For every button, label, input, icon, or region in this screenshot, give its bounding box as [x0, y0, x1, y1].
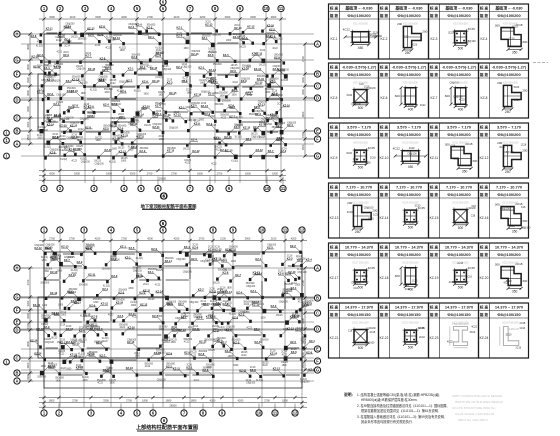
svg-text:500: 500	[358, 106, 364, 110]
svg-text:350x500: 350x500	[140, 64, 150, 66]
svg-text:KL3(2): KL3(2)	[36, 45, 43, 47]
svg-text:1800: 1800	[41, 260, 47, 262]
svg-text:标 高: 标 高	[329, 305, 339, 310]
svg-text:箍 筋: 箍 筋	[329, 312, 339, 317]
svg-text:1C16: 1C16	[412, 280, 418, 283]
svg-text:C8@100: C8@100	[77, 69, 87, 71]
svg-text:KZ-7: KZ-7	[152, 314, 158, 318]
plan 1 top axis bubbles	[41, 0, 284, 12]
svg-text:2700: 2700	[264, 398, 270, 402]
svg-text:1800: 1800	[82, 380, 88, 382]
svg-text:2C16: 2C16	[287, 256, 293, 258]
svg-text:600: 600	[395, 94, 400, 98]
svg-text:2C14: 2C14	[182, 64, 188, 66]
svg-text:350x500: 350x500	[282, 289, 292, 291]
svg-text:KZ-16: KZ-16	[224, 135, 232, 139]
column schedule cell block 3 group 3	[429, 123, 479, 178]
svg-text:KZ-8: KZ-8	[208, 92, 214, 96]
svg-text:KL3(2): KL3(2)	[229, 313, 236, 315]
svg-text:KZ-15: KZ-15	[243, 126, 251, 130]
svg-text:2C16: 2C16	[86, 53, 92, 55]
svg-text:1800: 1800	[228, 356, 234, 358]
svg-text:KZ-7: KZ-7	[126, 78, 132, 82]
svg-text:1800: 1800	[265, 92, 271, 94]
svg-text:KZ14 500x500: KZ14 500x500	[402, 202, 419, 205]
plan 1 right axis bubbles	[304, 41, 321, 159]
svg-text:C: C	[316, 83, 319, 88]
svg-text:4200: 4200	[174, 236, 180, 240]
svg-text:4C25: 4C25	[468, 27, 476, 31]
svg-text:16C25: 16C25	[213, 283, 220, 285]
svg-text:KZ-1: KZ-1	[179, 105, 185, 109]
svg-text:箍 筋: 箍 筋	[429, 13, 439, 18]
svg-text:3300: 3300	[95, 15, 101, 19]
svg-text:250: 250	[505, 170, 511, 174]
svg-text:1800: 1800	[226, 40, 232, 42]
svg-text:KZ-22: KZ-22	[380, 336, 389, 340]
svg-text:C: C	[16, 115, 19, 120]
svg-text:KZ-11: KZ-11	[173, 367, 181, 371]
svg-text:1C16: 1C16	[403, 284, 409, 287]
svg-text:C8@200: C8@200	[287, 122, 297, 124]
svg-text:C8@200: C8@200	[72, 341, 82, 343]
svg-text:1800: 1800	[58, 304, 64, 306]
svg-text:C8@200: C8@200	[255, 111, 265, 113]
svg-text:2C18: 2C18	[408, 104, 414, 107]
svg-text:1800: 1800	[144, 93, 150, 95]
svg-text:H: H	[16, 265, 19, 270]
svg-text:1800: 1800	[96, 140, 102, 142]
svg-text:Φ8@100/150: Φ8@100/150	[497, 312, 520, 317]
svg-text:500: 500	[358, 285, 364, 289]
svg-text:KZ-10: KZ-10	[277, 136, 285, 140]
plan 1 bottom dimension lines	[39, 169, 286, 182]
svg-text:E: E	[316, 346, 319, 351]
svg-text:C8@100: C8@100	[133, 271, 143, 273]
svg-text:4200: 4200	[200, 15, 206, 19]
svg-text:-0.030~3.570(-1.27): -0.030~3.570(-1.27)	[342, 65, 377, 70]
svg-text:KZ-1: KZ-1	[309, 339, 315, 343]
svg-text:KZ-1: KZ-1	[254, 327, 260, 331]
svg-text:4C22: 4C22	[447, 341, 453, 344]
svg-text:200: 200	[397, 22, 402, 26]
svg-text:C8@200: C8@200	[47, 121, 57, 123]
svg-text:KZ-5: KZ-5	[129, 246, 135, 250]
plan 1 main beam lines	[44, 34, 281, 156]
svg-text:箍 筋: 箍 筋	[379, 13, 389, 18]
svg-text:KZ-16: KZ-16	[69, 273, 77, 277]
svg-text:基础顶 ~ -0.030: 基础顶 ~ -0.030	[394, 6, 422, 11]
svg-text:KZ-13: KZ-13	[87, 26, 95, 30]
svg-text:16C25: 16C25	[144, 125, 151, 127]
svg-text:3300: 3300	[49, 15, 55, 19]
svg-text:KZ-9: KZ-9	[285, 272, 291, 276]
svg-text:Φ8@100/200: Φ8@100/200	[347, 72, 370, 77]
svg-text:2C16: 2C16	[208, 247, 214, 249]
svg-text:16C25: 16C25	[51, 338, 58, 340]
svg-text:G: G	[15, 57, 18, 62]
svg-text:箍 筋: 箍 筋	[379, 252, 389, 257]
svg-text:KZ-13: KZ-13	[179, 328, 187, 332]
svg-text:4C25: 4C25	[368, 266, 376, 270]
svg-text:1800: 1800	[166, 398, 172, 402]
svg-text:KZ-11: KZ-11	[46, 27, 54, 31]
svg-text:箍 筋: 箍 筋	[329, 13, 339, 18]
svg-text:Φ8@100/200: Φ8@100/200	[497, 13, 520, 18]
svg-text:KZ-8: KZ-8	[72, 104, 78, 108]
svg-text:400: 400	[458, 108, 464, 112]
svg-text:3C20: 3C20	[346, 152, 352, 155]
svg-text:KZ-5: KZ-5	[234, 340, 240, 344]
svg-text:KL3(2): KL3(2)	[231, 160, 238, 162]
svg-text:E: E	[16, 83, 19, 88]
svg-text:KZ-10: KZ-10	[33, 303, 41, 307]
svg-text:4C22: 4C22	[244, 304, 250, 306]
svg-text:A: A	[16, 378, 19, 383]
column schedule cell block 4 group 2	[379, 183, 429, 238]
svg-text:3C20: 3C20	[411, 44, 417, 47]
svg-text:1800: 1800	[245, 171, 251, 175]
svg-text:3. 柱插筋锚入基础做法详见《11G101—3》第59页及有: 3. 柱插筋锚入基础做法详见《11G101—3》第59页及有关说明,	[357, 414, 445, 419]
svg-text:2700: 2700	[72, 398, 78, 402]
svg-text:350x500: 350x500	[148, 269, 158, 271]
svg-text:1800: 1800	[233, 365, 239, 367]
svg-text:KZ-16: KZ-16	[267, 23, 275, 27]
column schedule cell block 6 group 1	[329, 303, 379, 358]
svg-text:2700: 2700	[147, 171, 153, 175]
svg-text:1800: 1800	[227, 287, 233, 289]
svg-text:KZ-9: KZ-9	[166, 351, 172, 355]
svg-text:4C22: 4C22	[56, 40, 62, 42]
svg-text:7.170 ~ 10.770: 7.170 ~ 10.770	[446, 185, 472, 190]
svg-text:350x500: 350x500	[147, 24, 157, 26]
svg-text:1C16: 1C16	[512, 26, 518, 29]
svg-text:KZ-9: KZ-9	[306, 350, 312, 354]
svg-text:2C14: 2C14	[301, 340, 307, 342]
svg-text:E: E	[316, 128, 319, 133]
svg-text:4C22: 4C22	[259, 304, 265, 306]
svg-text:2100: 2100	[70, 15, 76, 19]
svg-text:C8@200: C8@200	[191, 103, 201, 105]
svg-text:1C16: 1C16	[519, 327, 525, 330]
column schedule cell block 5 group 1	[329, 243, 379, 298]
svg-text:箍 筋: 箍 筋	[429, 312, 439, 317]
svg-text:2C18: 2C18	[370, 156, 376, 159]
svg-text:1800: 1800	[128, 288, 134, 290]
svg-text:350x500: 350x500	[104, 89, 114, 91]
svg-text:4C22: 4C22	[393, 147, 401, 151]
svg-text:KL3(2): KL3(2)	[103, 285, 110, 287]
svg-text:4200: 4200	[49, 171, 55, 175]
svg-text:KZ-16: KZ-16	[194, 93, 202, 97]
svg-text:KZ16 500x500: KZ16 500x500	[502, 202, 519, 205]
svg-text:4C22: 4C22	[194, 380, 200, 382]
svg-text:4200: 4200	[95, 236, 101, 240]
svg-text:C8@100: C8@100	[45, 342, 55, 344]
svg-text:2700: 2700	[49, 236, 55, 240]
svg-text:500: 500	[358, 346, 364, 350]
svg-text:KZ-4: KZ-4	[481, 37, 488, 41]
svg-text:350x500: 350x500	[40, 283, 50, 285]
svg-text:C8@100: C8@100	[189, 302, 199, 304]
svg-text:KZ-1: KZ-1	[148, 35, 154, 39]
svg-text:16C25: 16C25	[241, 352, 248, 354]
svg-text:3C20: 3C20	[469, 331, 475, 334]
svg-text:C8@200: C8@200	[267, 245, 277, 247]
svg-text:KZ-1: KZ-1	[54, 102, 60, 106]
svg-text:16C25: 16C25	[259, 64, 266, 66]
svg-text:4C22: 4C22	[343, 28, 351, 32]
svg-text:箍 筋: 箍 筋	[379, 192, 389, 197]
svg-text:1800: 1800	[60, 139, 66, 141]
svg-text:2C16: 2C16	[153, 113, 159, 115]
svg-text:3600: 3600	[26, 134, 30, 140]
svg-text:KZ-11: KZ-11	[156, 51, 164, 55]
svg-text:350x500: 350x500	[202, 35, 212, 37]
svg-text:KZ-1: KZ-1	[197, 316, 203, 320]
svg-text:4C22: 4C22	[459, 98, 465, 101]
svg-text:标 高: 标 高	[429, 125, 439, 130]
svg-text:C8@200: C8@200	[130, 121, 140, 123]
svg-text:4C22: 4C22	[211, 163, 217, 165]
svg-text:KZ-16: KZ-16	[34, 351, 42, 355]
svg-text:200: 200	[522, 148, 527, 152]
svg-text:KZ9 500x500: KZ9 500x500	[353, 142, 368, 145]
svg-text:300: 300	[472, 159, 477, 163]
plan 2 right dimension strip	[301, 266, 307, 371]
svg-text:KZ-8: KZ-8	[31, 34, 37, 38]
svg-text:标 高: 标 高	[379, 185, 389, 190]
svg-text:C8@100: C8@100	[407, 152, 417, 155]
svg-text:1C16: 1C16	[418, 327, 424, 330]
svg-text:4C22: 4C22	[105, 48, 111, 50]
plan 2 left dimension strip	[26, 266, 32, 382]
svg-text:4200: 4200	[147, 236, 153, 240]
svg-text:C8@200: C8@200	[230, 68, 240, 70]
svg-text:KZ-7: KZ-7	[431, 96, 438, 100]
svg-text:箍 筋: 箍 筋	[479, 252, 489, 257]
svg-text:14.370 ~ 17.970: 14.370 ~ 17.970	[495, 305, 523, 310]
svg-text:KZ-10: KZ-10	[283, 103, 291, 107]
svg-text:Φ8@100/200: Φ8@100/200	[447, 132, 470, 137]
column schedule cell block 6 group 3	[429, 303, 479, 358]
svg-text:KZ-14: KZ-14	[255, 271, 263, 275]
svg-text:C8@100: C8@100	[279, 302, 289, 304]
svg-text:C8@200: C8@200	[70, 122, 80, 124]
svg-text:KZ-5: KZ-5	[290, 315, 296, 319]
svg-text:3C20: 3C20	[506, 333, 512, 336]
svg-text:14.370 ~ 17.970: 14.370 ~ 17.970	[345, 305, 373, 310]
svg-text:KZ-10: KZ-10	[225, 148, 233, 152]
svg-text:KZ-1: KZ-1	[176, 65, 182, 69]
svg-text:2700: 2700	[126, 398, 132, 402]
svg-text:A: A	[16, 141, 19, 146]
svg-text:框架柱箍筋加密区范围详见《11G101—1》第61页说明.: 框架柱箍筋加密区范围详见《11G101—1》第61页说明.	[361, 408, 439, 413]
svg-text:1800: 1800	[104, 92, 110, 94]
svg-text:350x500: 350x500	[97, 380, 107, 382]
svg-text:350x500: 350x500	[198, 351, 208, 353]
svg-text:KZ-1: KZ-1	[331, 37, 338, 41]
svg-text:400: 400	[408, 108, 414, 112]
svg-text:KZ-4: KZ-4	[242, 36, 248, 40]
svg-text:350: 350	[512, 289, 518, 293]
svg-text:2C16: 2C16	[270, 351, 276, 353]
svg-text:2C16: 2C16	[223, 301, 229, 303]
svg-text:C8@100: C8@100	[300, 382, 310, 384]
svg-text:3.570 ~ 7.170: 3.570 ~ 7.170	[347, 125, 371, 130]
svg-text:KZ-11: KZ-11	[239, 368, 247, 372]
svg-text:KZ-12: KZ-12	[192, 149, 200, 153]
svg-text:KZ-20: KZ-20	[480, 276, 489, 280]
svg-text:350x500: 350x500	[78, 39, 88, 41]
svg-text:C8@100: C8@100	[365, 342, 375, 345]
svg-text:KZ-6: KZ-6	[47, 92, 53, 96]
svg-text:12: 12	[293, 410, 298, 415]
svg-text:标 高: 标 高	[329, 185, 339, 190]
svg-text:Φ8@100/200: Φ8@100/200	[497, 132, 520, 137]
svg-text:350x500: 350x500	[219, 93, 229, 95]
svg-text:KZ-15: KZ-15	[430, 216, 439, 220]
svg-text:C8@100: C8@100	[65, 117, 75, 119]
plan 1 bottom axis bubbles	[41, 177, 286, 200]
svg-text:KL3(2): KL3(2)	[41, 257, 48, 259]
svg-text:350x500: 350x500	[72, 76, 82, 78]
plan 2 top dimension line	[39, 236, 307, 242]
svg-text:350x500: 350x500	[165, 258, 175, 260]
svg-text:C8@100: C8@100	[364, 207, 374, 210]
svg-text:4C22: 4C22	[409, 147, 415, 150]
svg-text:4C22: 4C22	[282, 354, 288, 356]
svg-text:C8@100: C8@100	[200, 261, 210, 263]
svg-text:16C25: 16C25	[94, 161, 101, 163]
svg-text:350x500: 350x500	[140, 148, 150, 150]
svg-text:2. 柱纵筋连接构造及柱顶锚固做法详见《11G101—1》国: 2. 柱纵筋连接构造及柱顶锚固做法详见《11G101—1》国标图集,	[357, 403, 448, 408]
svg-text:KZ-6: KZ-6	[210, 315, 216, 319]
svg-text:350x500: 350x500	[85, 244, 95, 246]
svg-text:300: 300	[522, 40, 527, 44]
svg-text:2700: 2700	[217, 171, 223, 175]
svg-text:1800: 1800	[142, 398, 148, 402]
svg-text:C18: C18	[401, 95, 406, 98]
column schedule cell block 1 group 1	[329, 4, 383, 59]
svg-text:B: B	[16, 128, 19, 133]
svg-text:4C22: 4C22	[403, 35, 409, 38]
svg-text:KZ-3: KZ-3	[97, 327, 103, 331]
svg-text:KZ-13: KZ-13	[50, 270, 58, 274]
svg-text:KZ-16: KZ-16	[278, 68, 286, 72]
svg-text:1800: 1800	[121, 161, 127, 163]
svg-text:标 高: 标 高	[479, 305, 489, 310]
svg-text:C8@100: C8@100	[182, 67, 192, 69]
svg-text:C8@200: C8@200	[167, 301, 177, 303]
svg-text:500: 500	[358, 165, 364, 169]
svg-text:1800: 1800	[272, 171, 278, 175]
svg-text:2C18: 2C18	[514, 99, 520, 102]
svg-text:CO.LTD STRUCTURE DWG No.: CO.LTD STRUCTURE DWG No.	[452, 406, 496, 410]
plan 2 main beam lines	[44, 252, 302, 388]
svg-text:2C14: 2C14	[296, 256, 302, 258]
svg-text:C8@200: C8@200	[266, 115, 276, 117]
svg-text:G: G	[15, 294, 18, 299]
svg-text:C8@100: C8@100	[169, 127, 179, 129]
svg-text:3300: 3300	[26, 300, 30, 306]
plan 2 right axis bubbles	[304, 265, 321, 373]
svg-text:2C14: 2C14	[134, 353, 140, 355]
svg-text:C18: C18	[353, 287, 358, 290]
svg-text:10.770 ~ 14.370: 10.770 ~ 14.370	[445, 245, 473, 250]
column schedule cell block 5 group 2	[379, 243, 429, 298]
svg-text:KZ-5: KZ-5	[191, 257, 197, 261]
svg-text:箍 筋: 箍 筋	[429, 192, 439, 197]
svg-text:350x500: 350x500	[87, 113, 97, 115]
svg-text:300: 300	[495, 23, 500, 27]
svg-text:350x500: 350x500	[166, 364, 176, 366]
svg-text:1800: 1800	[220, 95, 226, 97]
svg-text:KZ-1: KZ-1	[119, 115, 125, 119]
svg-text:KZ-18: KZ-18	[380, 276, 389, 280]
svg-text:350x500: 350x500	[203, 367, 213, 369]
svg-text:KZ1 500x500: KZ1 500x500	[353, 23, 368, 26]
svg-text:2C14: 2C14	[291, 283, 297, 285]
svg-text:350x500: 350x500	[102, 268, 112, 270]
svg-text:KZ-1: KZ-1	[245, 91, 251, 95]
svg-text:16C25: 16C25	[95, 137, 102, 139]
svg-text:Φ8@100/200: Φ8@100/200	[397, 72, 420, 77]
svg-text:KZ3 500x500: KZ3 500x500	[453, 23, 468, 26]
svg-text:C8@200: C8@200	[50, 149, 60, 151]
svg-text:KZ-15: KZ-15	[105, 148, 113, 152]
svg-text:2C18: 2C18	[409, 222, 415, 225]
svg-text:KL3(2): KL3(2)	[297, 269, 304, 271]
svg-text:2C16: 2C16	[214, 247, 220, 249]
svg-text:1500: 1500	[301, 144, 305, 150]
svg-text:4C25: 4C25	[368, 146, 376, 150]
svg-text:11: 11	[283, 227, 288, 232]
svg-text:KZ-1: KZ-1	[54, 312, 60, 316]
svg-text:C8@100: C8@100	[176, 259, 186, 261]
svg-text:KL3(2): KL3(2)	[90, 89, 97, 91]
svg-text:C8@100: C8@100	[351, 282, 361, 285]
svg-text:KZ18 500x500: KZ18 500x500	[402, 262, 419, 265]
svg-text:1800: 1800	[49, 398, 55, 402]
svg-text:350x500: 350x500	[257, 76, 267, 78]
svg-text:KZ5 500x500: KZ5 500x500	[353, 82, 368, 85]
svg-text:2700: 2700	[121, 236, 127, 240]
svg-text:16C25: 16C25	[148, 299, 155, 301]
svg-text:KZ-2: KZ-2	[381, 37, 388, 41]
svg-text:KZ-8: KZ-8	[99, 78, 105, 82]
svg-text:4200: 4200	[121, 15, 127, 19]
svg-text:2C18: 2C18	[362, 275, 368, 278]
svg-text:KZ-1: KZ-1	[309, 368, 315, 372]
svg-text:3C20: 3C20	[506, 280, 512, 283]
svg-text:10.770 ~ 14.370: 10.770 ~ 14.370	[345, 245, 373, 250]
svg-text:C8@100: C8@100	[246, 286, 256, 288]
svg-text:KZ-6: KZ-6	[381, 96, 388, 100]
svg-text:2C16: 2C16	[201, 103, 207, 105]
svg-text:10: 10	[264, 6, 269, 11]
svg-text:KZ-16: KZ-16	[128, 326, 136, 330]
svg-text:16C25: 16C25	[58, 351, 65, 353]
svg-text:350x500: 350x500	[242, 66, 252, 68]
svg-text:350x500: 350x500	[222, 101, 232, 103]
svg-text:3.570 ~ 7.170: 3.570 ~ 7.170	[397, 125, 421, 130]
svg-text:KZ-9: KZ-9	[120, 90, 126, 94]
svg-text:KZ-5: KZ-5	[223, 53, 229, 57]
plan 1 horizontal grid lines	[21, 34, 314, 156]
svg-text:KZ-3: KZ-3	[213, 338, 219, 342]
svg-text:500: 500	[458, 226, 464, 230]
